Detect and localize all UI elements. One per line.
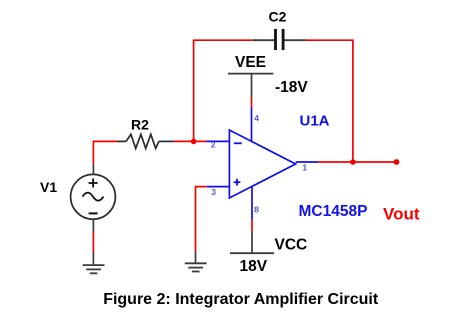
label 18V: [240, 258, 268, 275]
label Vout: [383, 204, 420, 223]
wire: pin 2 lead (blue): [207, 140, 230, 142]
wire: pin 3 lead (blue): [207, 186, 230, 188]
label VCC: [275, 236, 308, 253]
source V1: [71, 164, 116, 232]
svg-text:R2: R2: [131, 117, 149, 133]
wire: pin 3 horizontal to corner (red): [196, 186, 207, 188]
wire: VEE to op-amp pin 4 (red segment): [251, 97, 253, 107]
svg-text:1: 1: [302, 162, 307, 172]
wire: feedback right vertical (top wire down to output): [352, 40, 354, 162]
svg-text:U1A: U1A: [300, 113, 330, 130]
svg-text:Figure 2: Integrator Amplifier: Figure 2: Integrator Amplifier Circuit: [103, 291, 379, 308]
wire: V1 to R2 horizontal (red): [93, 140, 118, 142]
wire: output horizontal (red): [318, 161, 397, 163]
svg-text:MC1458P: MC1458P: [299, 203, 368, 220]
svg-text:-18V: -18V: [275, 79, 308, 96]
label V1: [40, 179, 57, 195]
op-amp U1A: [229, 130, 295, 220]
wire: R2 to inverting input (red): [174, 140, 207, 142]
wire: top horizontal right of C2: [306, 39, 354, 41]
pin number 1: [302, 162, 307, 172]
node: Vout endpoint: [394, 159, 400, 165]
ground (V1): [83, 253, 105, 274]
power symbol VEE: [228, 74, 273, 97]
wire: output pin 1 lead (blue): [296, 161, 318, 163]
power symbol VCC: [230, 231, 274, 253]
label -18V: [275, 79, 308, 96]
svg-text:Vout: Vout: [383, 204, 420, 223]
junction: feedback / input node: [191, 139, 197, 145]
label C2: [269, 8, 287, 24]
svg-text:V1: V1: [40, 179, 57, 195]
svg-text:C2: C2: [269, 8, 287, 24]
ground (non-inverting input): [185, 252, 207, 272]
svg-text:4: 4: [254, 113, 259, 123]
label U1A: [300, 113, 330, 130]
label VEE: [235, 54, 266, 71]
pin number 8: [254, 205, 259, 215]
wire: pin 4 lead (blue): [251, 107, 253, 142]
label R2: [131, 117, 149, 133]
pin number 2: [211, 140, 216, 150]
svg-text:18V: 18V: [240, 258, 268, 275]
capacitor C2: [253, 29, 306, 50]
pin number 4: [254, 113, 259, 123]
resistor R2: [117, 134, 174, 148]
svg-text:VEE: VEE: [235, 54, 266, 71]
pin number 3: [211, 187, 216, 197]
wire: top horizontal left of C2: [193, 39, 253, 41]
label MC1458P: [299, 203, 368, 220]
wire: V1 top vertical (red): [92, 141, 94, 165]
wire: pin 3 vertical down to ground (red): [195, 186, 197, 252]
svg-text:8: 8: [254, 205, 259, 215]
junction: output / feedback node: [350, 159, 356, 165]
wire: pin 8 to VCC (red segment): [251, 220, 253, 232]
svg-text:2: 2: [211, 140, 216, 150]
svg-text:VCC: VCC: [275, 236, 308, 253]
caption: Figure 2: [103, 291, 379, 308]
svg-text:3: 3: [211, 187, 216, 197]
wire: V1 bottom to ground (red): [92, 232, 94, 253]
wire: feedback left vertical (junction to top wire): [193, 40, 195, 141]
